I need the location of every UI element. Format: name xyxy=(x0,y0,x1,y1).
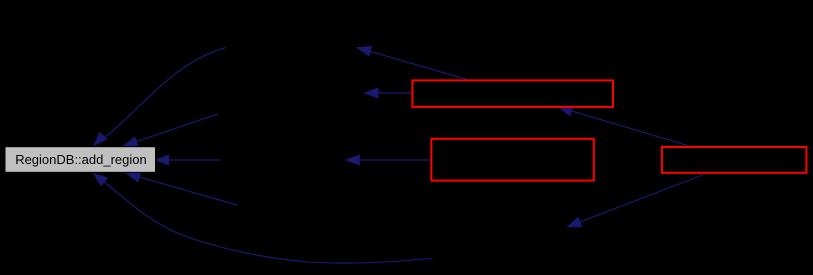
edge E1: curve from hidden node A to RegionDB::add_region (top) xyxy=(93,48,226,147)
edge E9: line from red box 3 to red box 1 xyxy=(558,106,691,147)
edge E10: line from red box 3 to hidden node E xyxy=(566,174,705,227)
red box 2 (truncated caller node, text hidden) xyxy=(431,139,593,181)
node RegionDB::add_region (current function, gray) xyxy=(5,147,156,173)
edge E8: horizontal line from red box 2 to hidden node C xyxy=(345,154,432,165)
svg-text:RegionDB::add_region: RegionDB::add_region xyxy=(15,152,147,167)
edge E5: horizontal line from hidden node C to RegionDB::add_region xyxy=(154,154,220,165)
red box 1 (truncated caller node, text hidden) xyxy=(412,80,613,107)
edge E2: line from hidden node B to RegionDB::add_region xyxy=(123,114,218,147)
edge E3: line from red box 1 to hidden node A xyxy=(356,46,467,80)
red box 3 (truncated caller node, text hidden) xyxy=(662,147,807,173)
edge E6: line from hidden node D to RegionDB::add_region (bottom) xyxy=(125,172,237,205)
edge E7: long bottom curve from hidden node E to RegionDB::add_region xyxy=(93,173,433,263)
edge E4: horizontal line from red box 1 to hidden node B xyxy=(363,87,412,98)
